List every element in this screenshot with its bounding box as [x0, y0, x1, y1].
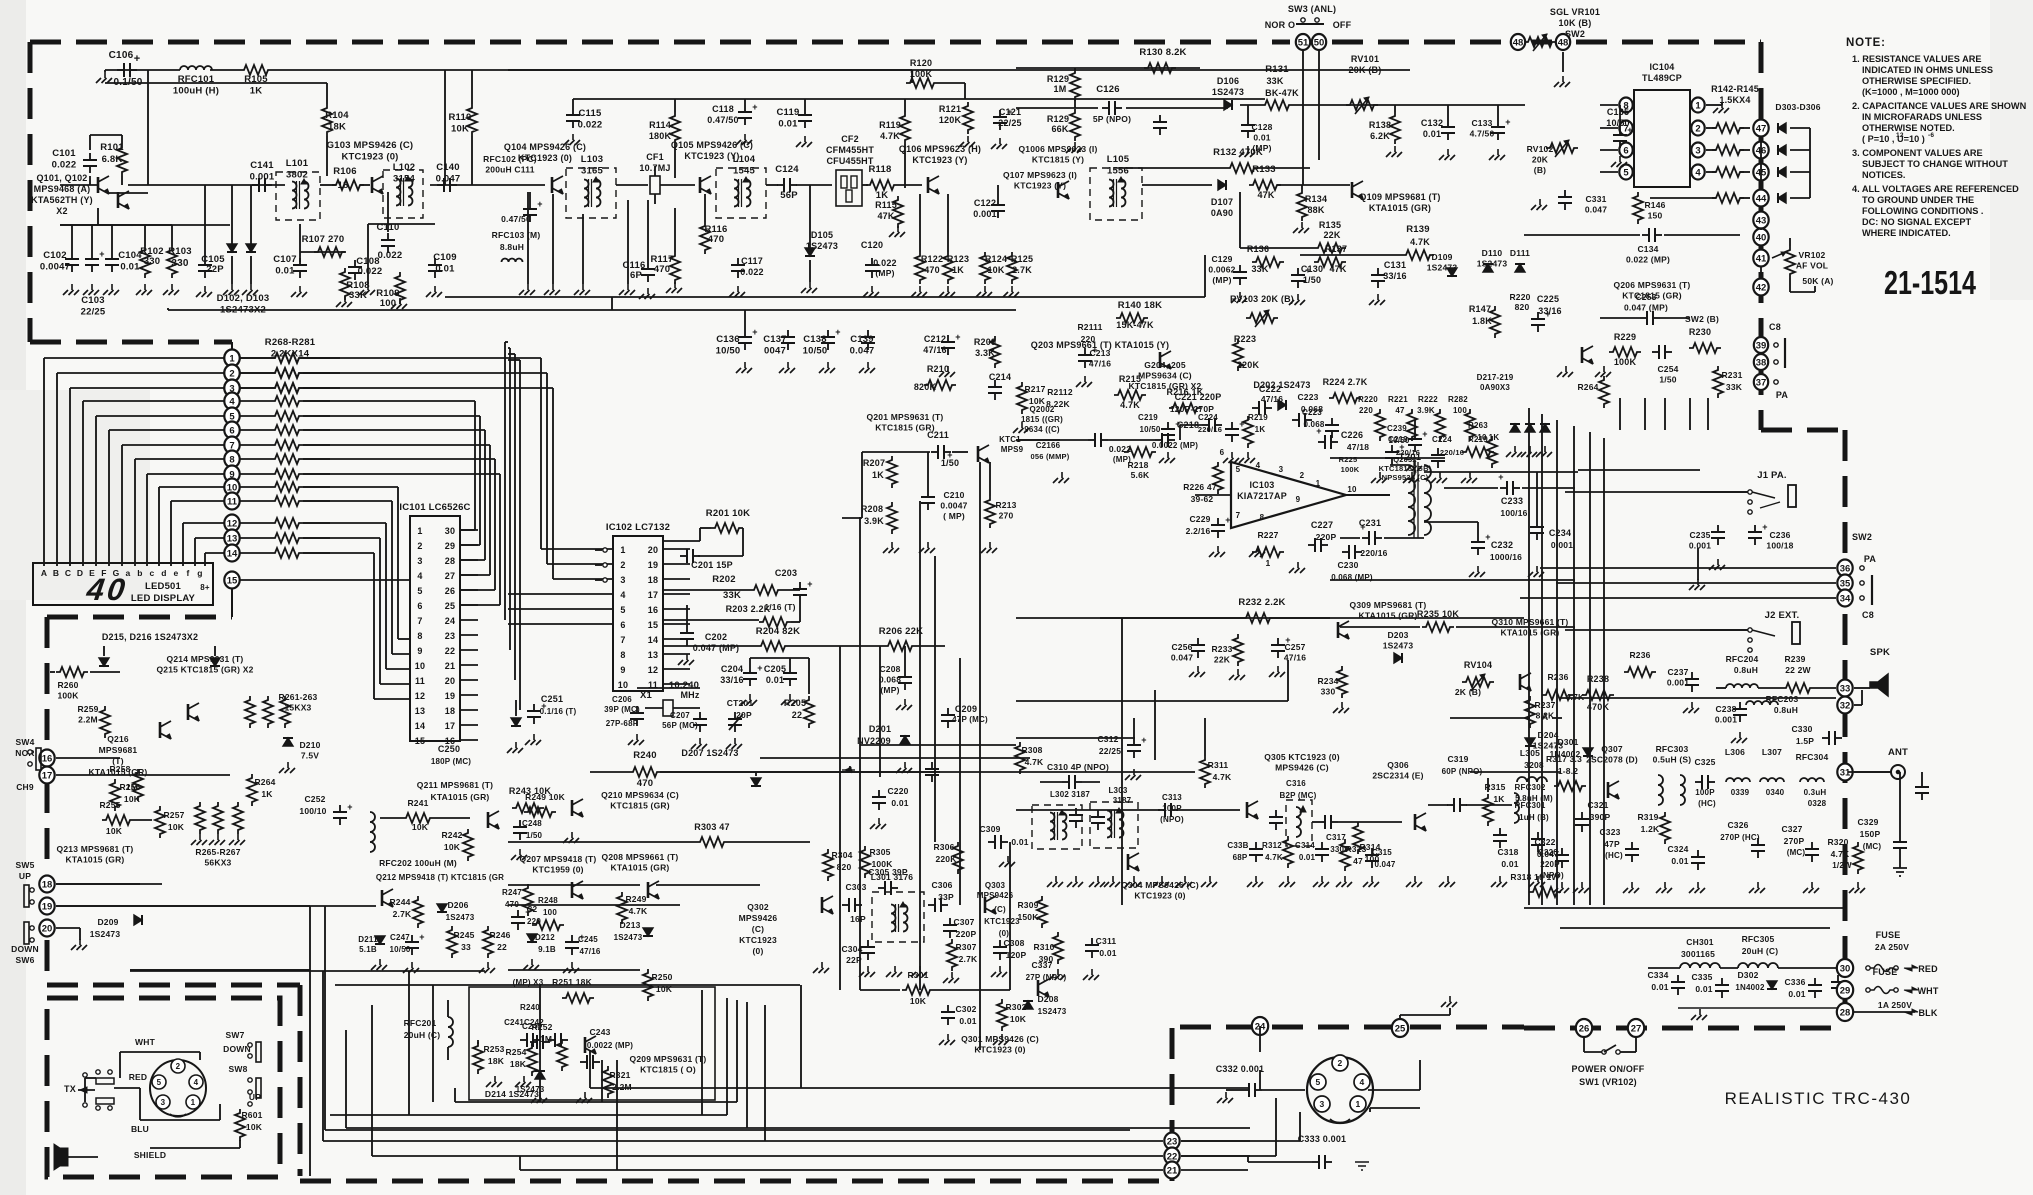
- svg-text:47/18: 47/18: [1347, 442, 1369, 452]
- svg-text:L301 3176: L301 3176: [871, 872, 914, 882]
- svg-text:10: 10: [1477, 433, 1487, 442]
- svg-text:(0): (0): [753, 946, 764, 956]
- svg-text:D211: D211: [358, 935, 378, 944]
- svg-text:R133: R133: [1252, 164, 1276, 175]
- svg-text:KTC1923: KTC1923: [984, 917, 1020, 926]
- svg-text:NOR O: NOR O: [1265, 20, 1296, 30]
- svg-text:KTC1815 ( O): KTC1815 ( O): [640, 1065, 696, 1075]
- svg-text:C231: C231: [1359, 518, 1381, 528]
- svg-text:R202: R202: [712, 574, 736, 585]
- svg-text:16P: 16P: [850, 914, 866, 924]
- svg-text:FUSE: FUSE: [1876, 930, 1901, 940]
- svg-text:27P (NPO): 27P (NPO): [1026, 973, 1067, 982]
- svg-text:OTHERWISE NOTED.: OTHERWISE NOTED.: [1862, 123, 1955, 133]
- svg-text:C326: C326: [1727, 820, 1748, 830]
- svg-text:5.6K: 5.6K: [1131, 470, 1150, 480]
- svg-text:R124: R124: [985, 254, 1007, 264]
- svg-text:KTC1815 (GR): KTC1815 (GR): [610, 801, 670, 811]
- svg-text:X2: X2: [56, 206, 67, 216]
- svg-text:0.01: 0.01: [275, 266, 295, 277]
- svg-text:056 (MMP): 056 (MMP): [1031, 452, 1070, 461]
- svg-text:4: 4: [1256, 461, 1261, 470]
- svg-text:3: 3: [417, 556, 422, 566]
- svg-text:270: 270: [999, 511, 1014, 521]
- svg-text:C224: C224: [1198, 413, 1218, 422]
- svg-text:120K: 120K: [939, 115, 962, 125]
- svg-text:1M: 1M: [540, 1034, 552, 1044]
- svg-text:9.1B: 9.1B: [538, 945, 556, 954]
- svg-text:2.7K: 2.7K: [959, 954, 978, 964]
- svg-text:IC102 LC7132: IC102 LC7132: [606, 522, 670, 533]
- svg-text:0.3uH: 0.3uH: [1804, 788, 1827, 797]
- svg-text:470: 470: [637, 778, 653, 789]
- svg-text:150K: 150K: [1017, 912, 1039, 922]
- svg-text:11: 11: [415, 676, 425, 686]
- svg-text:33K: 33K: [1726, 382, 1743, 392]
- svg-text:0.022: 0.022: [358, 266, 383, 277]
- svg-text:0.068: 0.068: [1303, 420, 1324, 429]
- svg-text:66K: 66K: [1051, 124, 1068, 134]
- svg-text:Q214 MPS9631 (T): Q214 MPS9631 (T): [167, 654, 244, 664]
- svg-text:MPS9: MPS9: [1001, 445, 1024, 454]
- svg-text:R304: R304: [831, 850, 852, 860]
- svg-text:C314: C314: [1295, 841, 1315, 850]
- svg-text:12: 12: [648, 665, 658, 675]
- svg-text:DC: NO SIGNAL EXCEPT: DC: NO SIGNAL EXCEPT: [1862, 217, 1971, 227]
- svg-text:CFU455HT: CFU455HT: [826, 156, 873, 166]
- svg-text:(B): (B): [1534, 165, 1546, 175]
- svg-text:1K: 1K: [250, 86, 263, 97]
- svg-text:R264: R264: [254, 777, 275, 787]
- svg-text:(NPO): (NPO): [1160, 815, 1184, 824]
- svg-text:22/25: 22/25: [1099, 746, 1121, 756]
- svg-text:+: +: [537, 199, 542, 209]
- svg-text:C135: C135: [1607, 107, 1629, 117]
- svg-text:2. CAPACITANCE VALUES ARE SHOW: 2. CAPACITANCE VALUES ARE SHOWN: [1852, 101, 2027, 111]
- svg-text:D102, D103: D102, D103: [217, 293, 270, 304]
- svg-text:R218: R218: [1127, 460, 1148, 470]
- svg-text:47/16: 47/16: [1261, 394, 1283, 404]
- svg-text:R138: R138: [1369, 120, 1391, 130]
- svg-text:NOTICES.: NOTICES.: [1862, 170, 1905, 180]
- svg-text:KTC1923 (0): KTC1923 (0): [974, 1045, 1025, 1055]
- svg-text:0.022: 0.022: [873, 258, 897, 268]
- svg-text:(C): (C): [994, 905, 1006, 914]
- svg-text:X1: X1: [640, 690, 653, 701]
- svg-text:1/50: 1/50: [1303, 275, 1321, 285]
- svg-text:56KX3: 56KX3: [205, 858, 232, 868]
- svg-text:48: 48: [1513, 37, 1524, 48]
- svg-text:5: 5: [620, 605, 625, 615]
- svg-text:100K: 100K: [1341, 465, 1360, 474]
- svg-text:1K: 1K: [1493, 794, 1505, 804]
- svg-text:30: 30: [445, 526, 455, 536]
- svg-text:C253: C253: [1635, 292, 1656, 302]
- svg-text:C208: C208: [879, 664, 900, 674]
- svg-text:C219: C219: [1138, 413, 1158, 422]
- svg-text:LED DISPLAY: LED DISPLAY: [131, 593, 196, 604]
- svg-text:c: c: [150, 568, 155, 578]
- svg-text:(MC): (MC): [1787, 848, 1806, 857]
- svg-text:1S2473: 1S2473: [1212, 87, 1244, 97]
- svg-text:KTC1923 (Y): KTC1923 (Y): [912, 155, 967, 165]
- svg-text:D106: D106: [1217, 76, 1239, 86]
- svg-text:R241: R241: [407, 798, 428, 808]
- svg-text:0.1/16 (T): 0.1/16 (T): [540, 707, 577, 716]
- svg-text:40: 40: [84, 572, 130, 607]
- svg-text:C103: C103: [81, 295, 105, 306]
- svg-text:R265-R267: R265-R267: [195, 847, 240, 857]
- svg-text:CT201: CT201: [727, 698, 754, 708]
- svg-text:3.3K: 3.3K: [975, 348, 995, 358]
- svg-text:1K: 1K: [1255, 425, 1266, 434]
- svg-text:R107 270: R107 270: [302, 234, 345, 245]
- svg-text:1: 1: [191, 1098, 196, 1107]
- svg-text:3: 3: [161, 1098, 166, 1107]
- svg-text:C122: C122: [974, 198, 996, 208]
- svg-text:R140 18K: R140 18K: [1118, 300, 1162, 311]
- svg-text:INDICATED IN OHMS UNLESS: INDICATED IN OHMS UNLESS: [1862, 65, 1993, 75]
- svg-text:47K: 47K: [1329, 264, 1346, 274]
- svg-text:R142-R145: R142-R145: [1711, 84, 1759, 94]
- svg-text:KTC1923 (0): KTC1923 (0): [341, 152, 398, 163]
- svg-text:10K: 10K: [168, 822, 185, 832]
- svg-text:33P: 33P: [938, 892, 954, 902]
- svg-text:0.01: 0.01: [766, 675, 784, 685]
- svg-text:39P (MC): 39P (MC): [604, 705, 640, 714]
- svg-text:R201 10K: R201 10K: [706, 508, 750, 519]
- svg-text:10/50: 10/50: [1139, 425, 1160, 434]
- svg-text:RV104: RV104: [1464, 660, 1492, 670]
- svg-text:REALISTIC TRC-430: REALISTIC TRC-430: [1725, 1089, 1912, 1108]
- svg-text:1S2473: 1S2473: [90, 929, 121, 939]
- svg-text:L303: L303: [1108, 786, 1127, 795]
- svg-text:28: 28: [445, 556, 455, 566]
- svg-text:22/25: 22/25: [998, 118, 1022, 128]
- svg-text:1.8K: 1.8K: [1472, 316, 1492, 326]
- svg-text:L305: L305: [1520, 748, 1540, 758]
- svg-text:R318 10 1W: R318 10 1W: [1510, 872, 1560, 882]
- svg-text:C248: C248: [522, 819, 542, 828]
- svg-text:KTC1815 (Y): KTC1815 (Y): [1032, 155, 1084, 165]
- svg-text:+: +: [1141, 735, 1146, 745]
- svg-text:470: 470: [708, 234, 724, 245]
- svg-text:(MP): (MP): [880, 685, 899, 695]
- svg-text:33/16: 33/16: [720, 675, 744, 685]
- svg-text:OFF: OFF: [1333, 20, 1352, 30]
- svg-text:7: 7: [417, 616, 422, 626]
- svg-text:0328: 0328: [1808, 799, 1827, 808]
- svg-text:C33B: C33B: [1227, 841, 1248, 850]
- svg-text:5: 5: [417, 586, 422, 596]
- svg-text:R130 8.2K: R130 8.2K: [1139, 47, 1186, 58]
- svg-text:KTA1015 (GR): KTA1015 (GR): [66, 855, 125, 865]
- svg-text:C325: C325: [1694, 757, 1715, 767]
- svg-text:4.7K: 4.7K: [1410, 237, 1430, 247]
- svg-text:C330: C330: [1791, 724, 1812, 734]
- svg-text:+: +: [347, 802, 352, 812]
- svg-text:20K: 20K: [1532, 155, 1549, 165]
- svg-text:1: 1: [1266, 558, 1271, 568]
- svg-text:C239: C239: [1387, 424, 1407, 433]
- svg-text:R258: R258: [109, 764, 130, 774]
- svg-text:NOTE:: NOTE:: [1846, 37, 1886, 49]
- svg-text:220P: 220P: [956, 929, 977, 939]
- svg-text:C141: C141: [250, 160, 274, 171]
- svg-text:16: 16: [42, 753, 53, 764]
- svg-text:20uH (C): 20uH (C): [1742, 946, 1779, 956]
- svg-text:RFC204: RFC204: [1726, 654, 1759, 664]
- svg-text:10K: 10K: [451, 124, 469, 135]
- svg-text:470: 470: [654, 264, 670, 275]
- svg-text:34: 34: [1840, 593, 1851, 604]
- svg-text:Q301 MPS9426 (C): Q301 MPS9426 (C): [961, 1034, 1039, 1044]
- svg-text:0.5uH (S): 0.5uH (S): [1653, 755, 1692, 765]
- svg-text:1S2473: 1S2473: [446, 913, 475, 922]
- svg-text:0.001: 0.001: [1551, 540, 1573, 550]
- svg-text:22K: 22K: [1323, 230, 1340, 240]
- svg-text:C309: C309: [979, 824, 1000, 834]
- svg-text:C256: C256: [1171, 642, 1192, 652]
- svg-text:0.47/50: 0.47/50: [707, 115, 738, 125]
- svg-text:UP: UP: [19, 871, 31, 881]
- svg-text:1. RESISTANCE VALUES ARE: 1. RESISTANCE VALUES ARE: [1852, 54, 1982, 64]
- svg-text:220/16: 220/16: [1360, 548, 1387, 558]
- svg-text:D209: D209: [97, 917, 118, 927]
- svg-text:R226 47: R226 47: [1183, 482, 1217, 492]
- svg-text:10/50: 10/50: [1606, 118, 1630, 128]
- svg-text:C233: C233: [1501, 496, 1523, 506]
- svg-text:R136: R136: [1247, 244, 1269, 254]
- svg-text:1K: 1K: [952, 265, 964, 275]
- svg-text:+: +: [1239, 419, 1244, 429]
- svg-text:SW4: SW4: [15, 737, 34, 747]
- svg-text:C202: C202: [705, 632, 727, 642]
- svg-text:12: 12: [227, 518, 238, 529]
- svg-text:180K: 180K: [649, 131, 672, 141]
- svg-text:+: +: [1175, 419, 1180, 429]
- svg-text:Q305 KTC1923 (0): Q305 KTC1923 (0): [1264, 752, 1339, 762]
- svg-text:4.7K: 4.7K: [629, 906, 648, 916]
- svg-text:3802: 3802: [286, 170, 308, 181]
- svg-text:100K: 100K: [57, 691, 79, 701]
- svg-text:C316: C316: [1286, 779, 1306, 788]
- svg-text:5P (NPO): 5P (NPO): [1093, 114, 1131, 124]
- svg-text:C236: C236: [1769, 530, 1790, 540]
- svg-text:C227: C227: [1311, 520, 1333, 530]
- svg-text:18K: 18K: [510, 1059, 527, 1069]
- svg-text:18: 18: [42, 879, 53, 890]
- svg-text:C129: C129: [1211, 254, 1232, 264]
- svg-text:6: 6: [1623, 145, 1628, 156]
- svg-text:1815 ((GR): 1815 ((GR): [1021, 415, 1063, 424]
- svg-text:R319: R319: [1637, 812, 1658, 822]
- svg-text:BLU: BLU: [131, 1124, 149, 1134]
- svg-text:6: 6: [417, 601, 422, 611]
- svg-text:Q101, Q102: Q101, Q102: [36, 173, 87, 183]
- svg-text:47K: 47K: [1257, 190, 1274, 200]
- svg-text:L307: L307: [1762, 747, 1782, 757]
- svg-text:R129: R129: [1047, 74, 1069, 84]
- svg-text:180P (MC): 180P (MC): [431, 757, 471, 766]
- svg-text:+: +: [1505, 117, 1510, 127]
- svg-text:Q208 MPS9661 (T): Q208 MPS9661 (T): [602, 852, 679, 862]
- svg-text:( P=10 , U=10 ): ( P=10 , U=10 ): [1862, 134, 1925, 144]
- svg-text:5: 5: [1316, 1077, 1321, 1087]
- svg-text:0.01: 0.01: [120, 262, 140, 273]
- svg-text:e: e: [174, 568, 179, 578]
- svg-text:D107: D107: [1211, 197, 1233, 207]
- svg-text:39-62: 39-62: [1191, 494, 1214, 504]
- svg-text:390P: 390P: [1590, 812, 1611, 822]
- svg-text:10K: 10K: [987, 265, 1004, 275]
- svg-text:Q309 MPS9681 (T): Q309 MPS9681 (T): [1350, 600, 1427, 610]
- svg-text:0.047 (MP): 0.047 (MP): [693, 643, 740, 653]
- svg-text:0A90X3: 0A90X3: [1480, 383, 1510, 392]
- svg-text:C238: C238: [1715, 704, 1736, 714]
- svg-text:R203 2.2K: R203 2.2K: [726, 604, 771, 614]
- svg-text:C250: C250: [438, 744, 460, 754]
- svg-text:C128: C128: [1251, 122, 1272, 132]
- svg-text:1S2473: 1S2473: [614, 933, 643, 942]
- svg-text:+: +: [1422, 429, 1427, 439]
- svg-text:10K: 10K: [1010, 1014, 1027, 1024]
- svg-text:13: 13: [227, 533, 238, 544]
- svg-text:41: 41: [1756, 253, 1767, 264]
- svg-text:9: 9: [1296, 495, 1301, 504]
- svg-text:2K (B): 2K (B): [1455, 687, 1481, 697]
- svg-text:(MC): (MC): [1863, 842, 1882, 851]
- svg-text:C210: C210: [943, 490, 964, 500]
- svg-text:C117: C117: [741, 256, 763, 266]
- svg-text:0.01: 0.01: [435, 264, 455, 275]
- svg-text:R320: R320: [1827, 837, 1848, 847]
- svg-text:R104: R104: [325, 110, 349, 121]
- svg-text:2.2M: 2.2M: [78, 715, 98, 725]
- svg-text:47P (MC): 47P (MC): [952, 715, 988, 724]
- svg-text:C211: C211: [927, 430, 949, 440]
- svg-text:RFC304: RFC304: [1796, 752, 1829, 762]
- svg-text:C120: C120: [861, 240, 883, 250]
- svg-text:33/16: 33/16: [1383, 271, 1407, 281]
- svg-text:Q201 MPS9631 (T): Q201 MPS9631 (T): [867, 412, 944, 422]
- svg-text:10K: 10K: [1029, 396, 1046, 406]
- svg-text:29: 29: [445, 541, 455, 551]
- svg-text:R312: R312: [1262, 841, 1282, 850]
- svg-text:0.01: 0.01: [1651, 982, 1668, 992]
- svg-text:2: 2: [176, 1062, 181, 1071]
- svg-text:(HC): (HC): [1698, 799, 1716, 808]
- svg-text:3: 3: [1695, 145, 1700, 156]
- svg-text:9: 9: [417, 646, 422, 656]
- svg-text:IC101 LC6526C: IC101 LC6526C: [399, 502, 470, 513]
- svg-text:0.01: 0.01: [1695, 984, 1712, 994]
- svg-text:(HC): (HC): [1605, 851, 1623, 860]
- svg-text:Q212 MPS9418 (T) KTC1815 (G: Q212 MPS9418 (T) KTC1815 (GR: [376, 873, 504, 882]
- svg-text:17: 17: [42, 770, 53, 781]
- svg-text:R268-R281: R268-R281: [265, 337, 316, 348]
- svg-text:0.001: 0.001: [973, 209, 997, 219]
- svg-text:MPS9634 (C): MPS9634 (C): [1138, 371, 1192, 381]
- svg-text:POWER ON/OFF: POWER ON/OFF: [1572, 1064, 1645, 1074]
- svg-text:R234: R234: [1317, 676, 1338, 686]
- svg-text:Q2002: Q2002: [1029, 405, 1054, 414]
- svg-text:24: 24: [445, 616, 455, 626]
- svg-text:C204: C204: [721, 664, 743, 674]
- svg-text:0.01: 0.01: [1788, 989, 1805, 999]
- svg-text:4: 4: [417, 571, 422, 581]
- svg-text:R146: R146: [1644, 200, 1665, 210]
- svg-text:C136: C136: [716, 334, 740, 345]
- svg-text:+: +: [757, 663, 762, 673]
- svg-text:C333 0.001: C333 0.001: [1298, 1134, 1347, 1144]
- svg-text:R103: R103: [168, 246, 192, 257]
- svg-text:330: 330: [171, 258, 189, 269]
- svg-text:R310: R310: [1033, 942, 1054, 952]
- svg-text:18: 18: [445, 706, 455, 716]
- svg-text:DOWN: DOWN: [223, 1044, 251, 1054]
- svg-text:R311: R311: [1208, 760, 1229, 770]
- svg-text:1.5P: 1.5P: [1796, 736, 1814, 746]
- svg-text:C124: C124: [775, 164, 799, 175]
- svg-text:820: 820: [837, 862, 852, 872]
- svg-text:4.7K: 4.7K: [1213, 772, 1232, 782]
- svg-text:+: +: [807, 579, 812, 589]
- svg-text:Q207 MPS9418 (T): Q207 MPS9418 (T): [520, 854, 597, 864]
- svg-text:10.7MJ: 10.7MJ: [639, 163, 670, 173]
- svg-text:D207 1S2473: D207 1S2473: [681, 748, 738, 758]
- svg-text:220K: 220K: [935, 854, 957, 864]
- svg-text:C230: C230: [1337, 560, 1358, 570]
- svg-text:D214 1S2473: D214 1S2473: [485, 1089, 539, 1099]
- svg-text:20: 20: [445, 676, 455, 686]
- svg-text:32: 32: [1840, 700, 1851, 711]
- svg-text:R120: R120: [910, 58, 932, 68]
- svg-text:R237: R237: [1534, 700, 1555, 710]
- svg-text:20K (B): 20K (B): [1349, 65, 1382, 75]
- svg-text:5.1B: 5.1B: [359, 945, 377, 954]
- svg-text:28: 28: [1840, 1007, 1851, 1018]
- svg-text:ANT: ANT: [1888, 747, 1908, 758]
- svg-text:+: +: [752, 102, 757, 112]
- svg-text:R253: R253: [483, 1044, 504, 1054]
- svg-text:470: 470: [924, 265, 940, 275]
- svg-text:100P: 100P: [1695, 788, 1715, 797]
- svg-text:BK-47K: BK-47K: [1265, 88, 1299, 98]
- svg-text:C2166: C2166: [1036, 441, 1061, 450]
- svg-text:0.0047: 0.0047: [940, 501, 967, 511]
- svg-text:C132: C132: [1421, 118, 1443, 128]
- svg-text:AF VOL: AF VOL: [1796, 261, 1828, 271]
- svg-text:1M: 1M: [1054, 84, 1067, 94]
- svg-text:50K (A): 50K (A): [1802, 276, 1833, 286]
- svg-text:R106: R106: [333, 166, 357, 177]
- svg-text:47: 47: [1353, 856, 1363, 866]
- svg-text:KTA1015 (GR): KTA1015 (GR): [1501, 628, 1560, 638]
- svg-text:15: 15: [227, 575, 238, 586]
- svg-text:KTA1015 (GR): KTA1015 (GR): [431, 792, 490, 802]
- svg-text:2: 2: [417, 541, 422, 551]
- svg-text:100: 100: [1453, 406, 1467, 415]
- svg-text:R250: R250: [651, 972, 672, 982]
- svg-text:6.2K: 6.2K: [1370, 131, 1390, 141]
- svg-text:C106: C106: [109, 50, 134, 61]
- svg-text:100K: 100K: [910, 69, 933, 79]
- svg-text:WHT: WHT: [135, 1037, 156, 1047]
- svg-text:22: 22: [497, 942, 507, 952]
- svg-text:+: +: [955, 332, 960, 342]
- svg-text:SHIELD: SHIELD: [134, 1150, 166, 1160]
